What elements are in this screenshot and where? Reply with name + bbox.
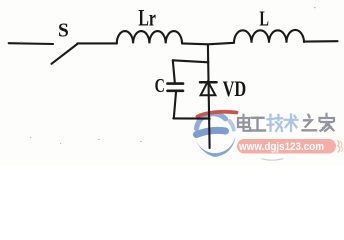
watermark banner right wing	[338, 141, 340, 153]
capacitor C top plate	[168, 82, 184, 85]
wire: main vertical branch	[208, 45, 210, 149]
switch S blade	[52, 44, 78, 64]
wire: C-branch top	[173, 60, 209, 62]
svg-text:L: L	[259, 6, 269, 30]
wire: left segment	[9, 42, 53, 45]
svg-text:VD: VD	[223, 77, 247, 101]
wire: C-branch left lower lead	[174, 92, 176, 118]
wire: C-branch left upper lead	[173, 60, 175, 82]
svg-text:C: C	[155, 75, 165, 97]
capacitor C bottom plate	[168, 90, 184, 93]
watermark logo red ring arc	[198, 112, 237, 117]
wire: right segment	[304, 40, 338, 42]
wire: C-branch bottom	[173, 117, 209, 119]
faint smudge below banner	[262, 159, 283, 160]
scan speckles	[21, 7, 316, 144]
watermark text 工	[250, 118, 265, 131]
wire: switch to Lr	[77, 42, 117, 44]
wire: Lr to L through junction	[182, 43, 234, 45]
inductor Lr coil	[117, 31, 182, 43]
diode VD triangle	[201, 81, 216, 95]
watermark text 术	[285, 114, 298, 131]
watermark text 技	[268, 115, 283, 131]
watermark text 电	[238, 115, 250, 131]
watermark text 家	[320, 114, 335, 131]
diode VD cathode bar	[200, 81, 217, 84]
inductor L coil	[234, 30, 304, 43]
watermark logo sphere	[196, 114, 236, 157]
svg-text:Lr: Lr	[138, 6, 156, 31]
svg-text:S: S	[58, 20, 69, 42]
watermark banner pill	[237, 139, 336, 154]
svg-text:www.dgjs123.com: www.dgjs123.com	[238, 141, 324, 153]
watermark text 之	[303, 115, 317, 131]
